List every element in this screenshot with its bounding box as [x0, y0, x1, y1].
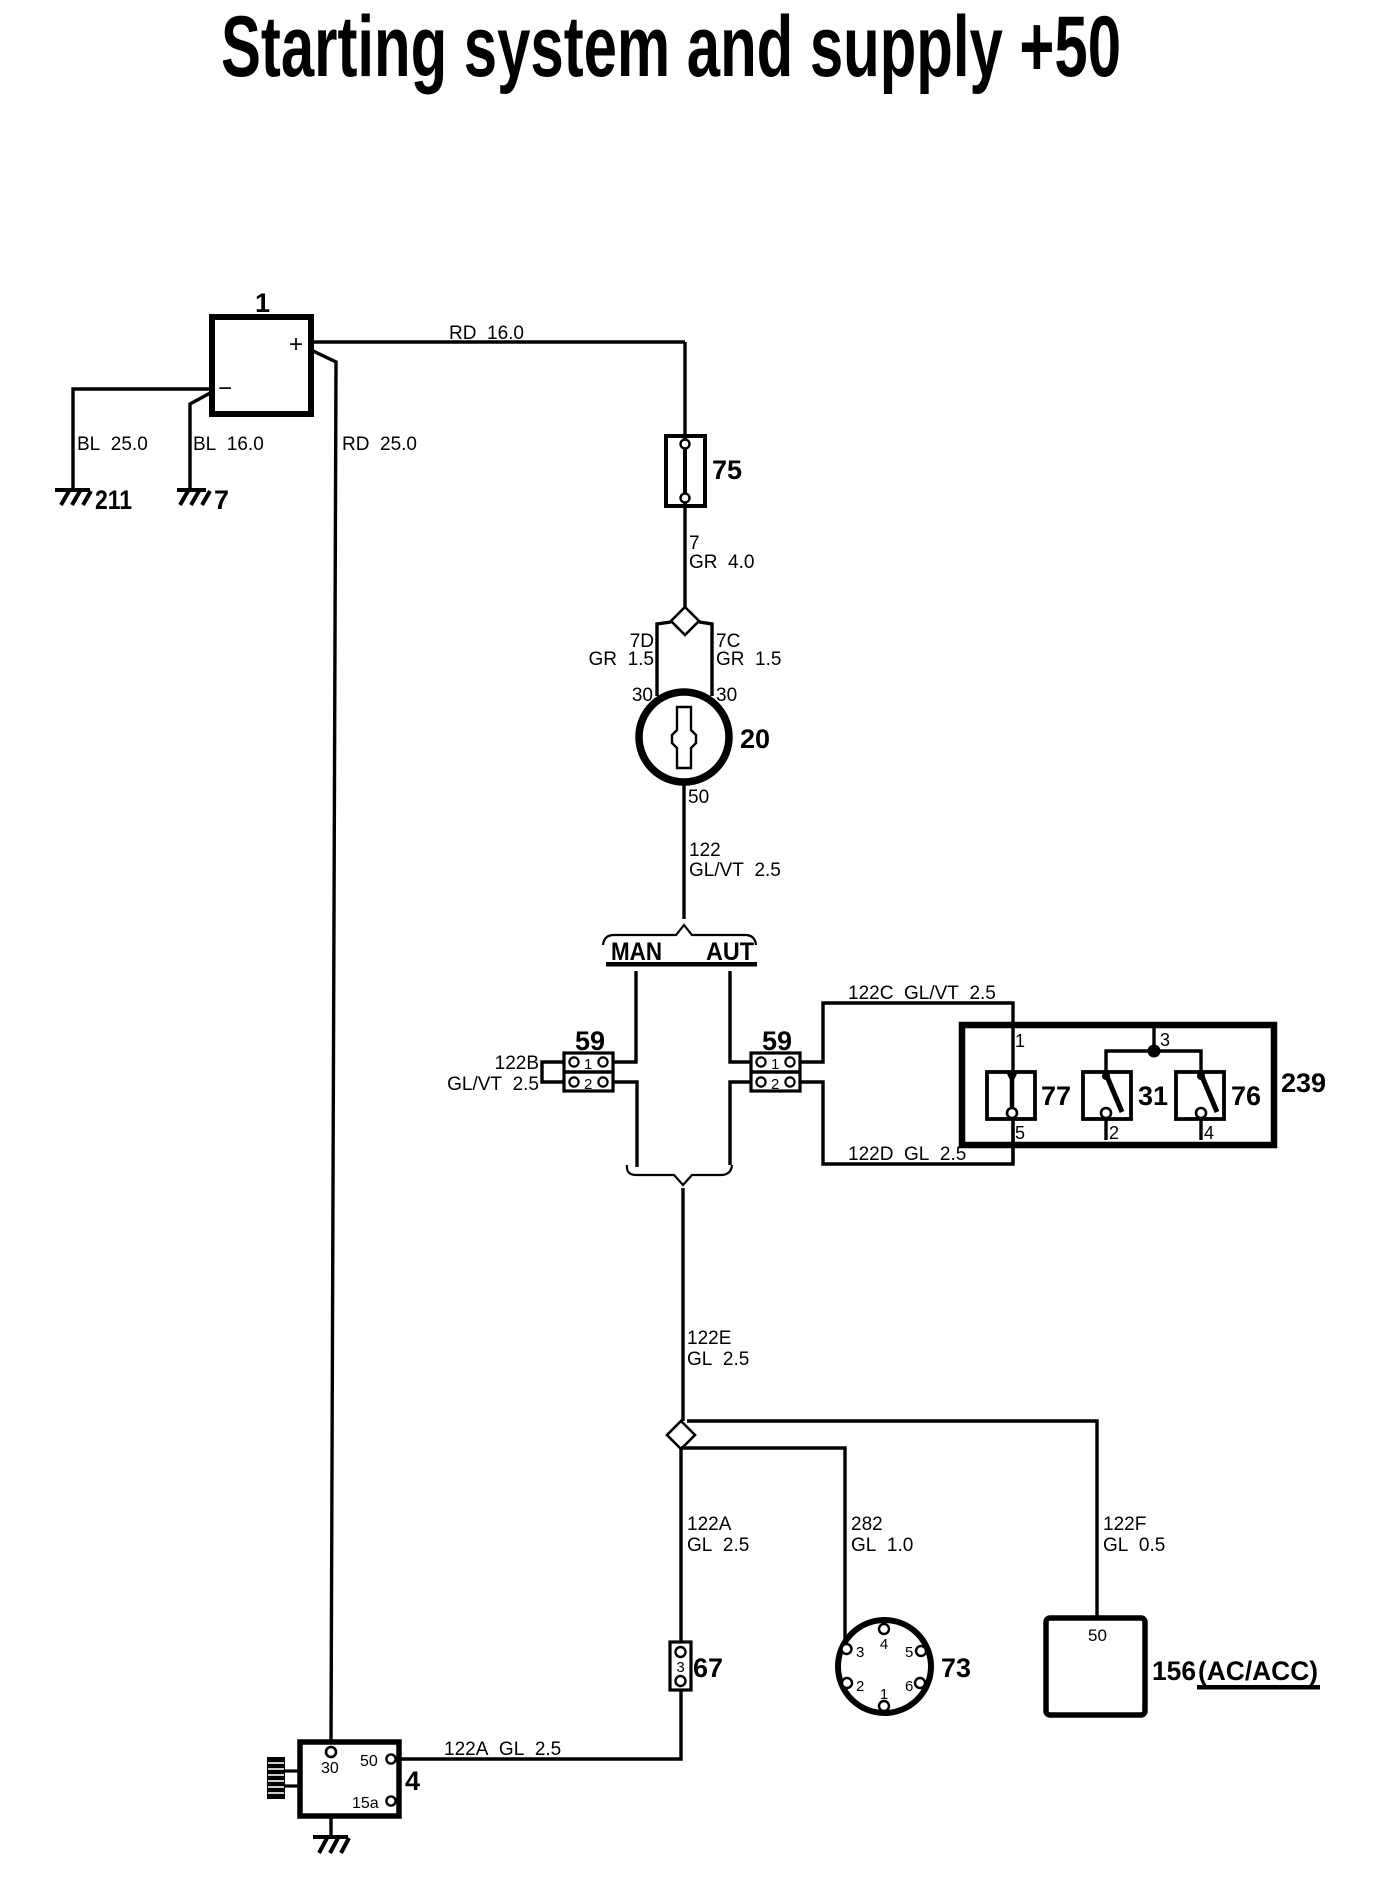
- key symbol on switch 4: [267, 1757, 300, 1799]
- wire BL 25.0 battery - to ground 211: [73, 389, 212, 488]
- svg-text:76: 76: [1231, 1081, 1261, 1111]
- svg-text:BL 25.0: BL 25.0: [77, 434, 148, 455]
- svg-text:4: 4: [405, 1766, 420, 1796]
- svg-text:156: 156: [1152, 1656, 1196, 1686]
- svg-text:50: 50: [688, 787, 709, 808]
- pin 1 label: [1015, 1031, 1025, 1051]
- svg-text:73: 73: [941, 1653, 971, 1683]
- svg-text:211: 211: [95, 485, 132, 515]
- svg-text:3: 3: [1160, 1030, 1170, 1050]
- wire 122A GL 2.5 from 67 to switch 4: [399, 1690, 681, 1760]
- svg-text:GL 0.5: GL 0.5: [1103, 1535, 1165, 1556]
- connector 59 left (MAN): [564, 1026, 613, 1093]
- svg-text:31: 31: [1138, 1081, 1168, 1111]
- svg-text:75: 75: [712, 455, 742, 485]
- ignition switch 4: [300, 1742, 420, 1816]
- svg-text:122: 122: [689, 840, 721, 861]
- wire 122 GL/VT 2.5 switch 20 to MAN/AUT: [684, 782, 781, 919]
- svg-text:(AC/ACC): (AC/ACC): [1198, 1656, 1318, 1686]
- svg-text:1: 1: [584, 1056, 592, 1073]
- wire 122D GL 2.5: [800, 1082, 1013, 1165]
- svg-text:GR 1.5: GR 1.5: [589, 649, 654, 670]
- junction diamond node 122: [667, 1421, 695, 1449]
- svg-text:77: 77: [1041, 1081, 1071, 1111]
- relay unit 239: [962, 1025, 1326, 1145]
- svg-text:15a: 15a: [352, 1795, 379, 1812]
- wire pin5 down to 122D: [1011, 1118, 1014, 1164]
- svg-text:GR 4.0: GR 4.0: [689, 552, 754, 573]
- svg-text:2: 2: [584, 1076, 592, 1093]
- connector 67: [670, 1642, 723, 1690]
- svg-text:1: 1: [255, 288, 270, 318]
- svg-text:2: 2: [1109, 1123, 1119, 1143]
- svg-text:2: 2: [771, 1076, 779, 1093]
- wire 7 GR 4.0 fuse to diamond: [685, 506, 754, 607]
- svg-text:+: +: [289, 331, 303, 358]
- svg-text:GL 2.5: GL 2.5: [687, 1349, 749, 1370]
- wire 122E GL 2.5: [683, 1188, 749, 1421]
- svg-text:122F: 122F: [1103, 1514, 1146, 1535]
- wire 7C GR 1.5 to switch 20: [699, 622, 781, 706]
- svg-text:1: 1: [1015, 1031, 1025, 1051]
- svg-text:1: 1: [880, 1686, 888, 1703]
- ground 7: [177, 485, 229, 515]
- svg-text:GL 2.5: GL 2.5: [687, 1535, 749, 1556]
- svg-text:20: 20: [740, 724, 770, 754]
- svg-text:GL/VT 2.5: GL/VT 2.5: [447, 1074, 539, 1095]
- wire left 59 pin2 down: [613, 1082, 637, 1167]
- ground 211: [55, 485, 132, 515]
- node MAN/AUT split brace: [603, 925, 757, 967]
- wire right 59 pin2 down: [730, 1082, 751, 1165]
- wire RD 16.0 battery + to fuse: [311, 323, 685, 436]
- junction diamond node 7: [671, 607, 699, 635]
- svg-text:3: 3: [856, 1644, 864, 1661]
- svg-text:122A GL 2.5: 122A GL 2.5: [444, 1739, 561, 1760]
- svg-text:30: 30: [716, 685, 737, 706]
- wire AUT branch: [730, 971, 751, 1062]
- svg-text:1: 1: [771, 1056, 779, 1073]
- wire RD 25.0 battery + down to switch 4: [311, 350, 417, 1742]
- wire BL 16.0 battery - to ground 7: [190, 392, 264, 488]
- svg-text:4: 4: [880, 1636, 888, 1653]
- svg-text:5: 5: [905, 1644, 913, 1661]
- node merge brace below 59: [627, 1165, 732, 1185]
- ignition switch 20: [639, 692, 770, 808]
- svg-text:BL 16.0: BL 16.0: [193, 434, 264, 455]
- contact 76: [1176, 1072, 1261, 1143]
- svg-text:GL 1.0: GL 1.0: [851, 1535, 913, 1556]
- wire 122B GL/VT 2.5 loop: [447, 1053, 564, 1095]
- svg-text:122D GL 2.5: 122D GL 2.5: [848, 1144, 966, 1165]
- svg-text:239: 239: [1281, 1068, 1326, 1098]
- wire 122C GL/VT 2.5: [800, 983, 1013, 1072]
- wire 7D GR 1.5 to switch 20: [589, 622, 671, 706]
- svg-text:5: 5: [1015, 1123, 1025, 1143]
- wire 122A GL 2.5 down to connector 67: [681, 1449, 749, 1642]
- wire MAN branch: [613, 971, 636, 1062]
- wire 122F GL 0.5 to 156: [687, 1421, 1165, 1618]
- svg-text:282: 282: [851, 1514, 883, 1535]
- svg-text:Starting system and supply +50: Starting system and supply +50: [221, 0, 1121, 95]
- svg-text:67: 67: [693, 1653, 723, 1683]
- connector 73: [838, 1620, 971, 1713]
- svg-text:122A: 122A: [687, 1514, 732, 1535]
- svg-text:−: −: [218, 375, 232, 402]
- svg-text:GR 1.5: GR 1.5: [716, 649, 781, 670]
- svg-text:MAN: MAN: [611, 938, 662, 966]
- svg-text:3: 3: [676, 1659, 684, 1676]
- svg-text:30: 30: [321, 1760, 339, 1777]
- unit 156 (AC/ACC): [1046, 1618, 1320, 1715]
- svg-text:RD 16.0: RD 16.0: [449, 323, 524, 344]
- svg-text:59: 59: [575, 1026, 605, 1056]
- wire 282 GL 1.0 to 73: [681, 1448, 913, 1643]
- svg-text:50: 50: [1088, 1626, 1107, 1645]
- svg-text:RD 25.0: RD 25.0: [342, 434, 417, 455]
- svg-text:4: 4: [1204, 1123, 1214, 1143]
- contact 31: [1083, 1072, 1168, 1143]
- svg-text:122C GL/VT 2.5: 122C GL/VT 2.5: [848, 983, 996, 1004]
- wire switch 4 to ground: [329, 1816, 332, 1836]
- fuse 75: [666, 436, 742, 506]
- battery 1: [212, 288, 311, 414]
- svg-text:50: 50: [360, 1753, 378, 1770]
- svg-text:7: 7: [689, 533, 700, 554]
- node 3 branch inside 239: [1106, 1025, 1201, 1072]
- svg-text:GL/VT 2.5: GL/VT 2.5: [689, 860, 781, 881]
- svg-text:AUT: AUT: [706, 938, 754, 966]
- contact 77: [987, 1072, 1071, 1143]
- svg-text:6: 6: [905, 1678, 913, 1695]
- svg-text:122E: 122E: [687, 1328, 731, 1349]
- svg-text:59: 59: [762, 1026, 792, 1056]
- ground below switch 4: [313, 1835, 349, 1853]
- connector 59 right (AUT): [751, 1026, 800, 1093]
- svg-text:7: 7: [214, 485, 229, 515]
- svg-text:122B: 122B: [495, 1053, 539, 1074]
- svg-text:2: 2: [856, 1678, 864, 1695]
